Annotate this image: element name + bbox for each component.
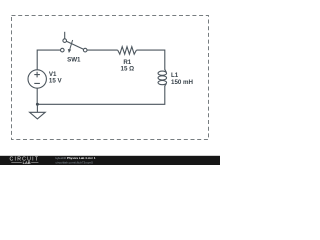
node junction dot at ground	[36, 103, 39, 106]
wire: V1 bottom down to bottom wire	[36, 88, 38, 104]
ground	[30, 104, 46, 119]
wire top-left: V1 top to switch	[37, 50, 60, 70]
voltage source V1	[28, 70, 46, 88]
wire: resistor to top-right corner down to inductor	[136, 50, 164, 69]
wire: switch right to resistor	[87, 49, 118, 51]
wire: inductor bottom to bottom-right corner, bottom wire to junction	[37, 86, 164, 104]
inductor L1	[158, 69, 167, 86]
CircuitLab logo line LAB	[11, 160, 38, 165]
svg-text:SW1: SW1	[67, 56, 81, 63]
schematic selection dashed border	[12, 16, 209, 140]
footer black bar	[0, 156, 220, 165]
svg-text:circuitlab.com/c6cb73oqm5: circuitlab.com/c6cb73oqm5	[56, 161, 94, 165]
svg-text:150 mH: 150 mH	[171, 79, 194, 86]
svg-text:LAB: LAB	[23, 160, 31, 165]
svg-text:15 V: 15 V	[49, 78, 63, 85]
svg-text:L1: L1	[171, 72, 179, 79]
svg-text:kyleshill Physics Lab 4 circ 1: kyleshill Physics Lab 4 circ 1	[56, 156, 96, 160]
switch SW1	[61, 32, 87, 53]
svg-text:15 Ω: 15 Ω	[121, 65, 135, 72]
resistor R1	[118, 47, 137, 55]
